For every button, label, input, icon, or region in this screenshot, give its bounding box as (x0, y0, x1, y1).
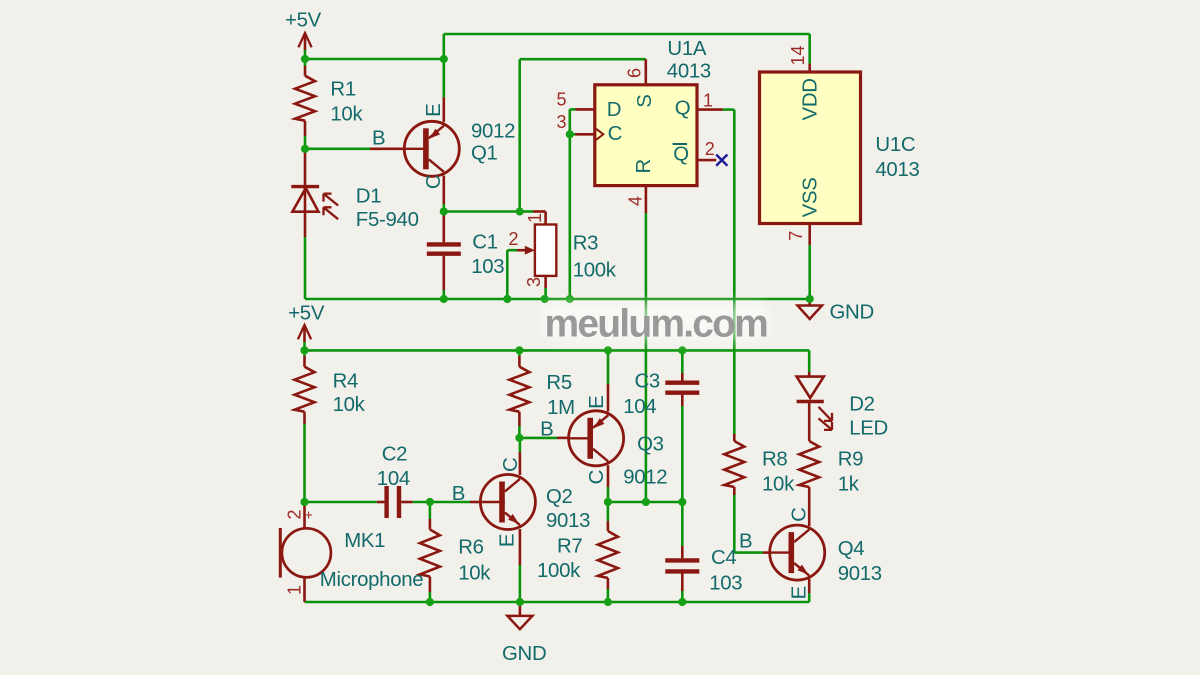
svg-text:R9: R9 (838, 448, 863, 470)
svg-text:Q4: Q4 (838, 538, 865, 560)
svg-text:D2: D2 (849, 393, 874, 415)
svg-text:4013: 4013 (667, 60, 711, 82)
svg-text:D: D (607, 99, 621, 121)
svg-text:100k: 100k (573, 260, 617, 282)
svg-text:14: 14 (788, 45, 808, 65)
svg-text:MK1: MK1 (344, 530, 385, 552)
svg-text:1k: 1k (838, 474, 860, 496)
svg-text:VDD: VDD (799, 78, 821, 120)
svg-text:2: 2 (705, 139, 715, 159)
svg-text:3: 3 (556, 112, 566, 132)
svg-text:E: E (789, 586, 811, 599)
svg-text:103: 103 (471, 256, 504, 278)
svg-text:3: 3 (524, 277, 544, 287)
svg-text:10k: 10k (333, 394, 366, 416)
svg-text:10k: 10k (458, 563, 491, 585)
svg-text:R7: R7 (557, 536, 582, 558)
svg-text:R: R (633, 159, 655, 173)
svg-text:C: C (500, 458, 522, 472)
svg-text:Q: Q (675, 97, 691, 119)
svg-text:10k: 10k (762, 474, 795, 496)
svg-text:Q3: Q3 (637, 434, 664, 456)
svg-text:B: B (739, 531, 752, 553)
svg-text:10k: 10k (330, 104, 363, 126)
svg-text:1M: 1M (547, 397, 575, 419)
svg-text:9013: 9013 (838, 563, 882, 585)
svg-text:C: C (608, 123, 622, 145)
svg-text:C: C (586, 470, 608, 484)
svg-text:1: 1 (284, 585, 304, 595)
svg-text:E: E (586, 396, 608, 409)
svg-text:C1: C1 (472, 231, 497, 253)
svg-text:2: 2 (509, 229, 519, 249)
svg-text:R6: R6 (458, 537, 483, 559)
svg-text:100k: 100k (537, 560, 581, 582)
svg-text:LED: LED (849, 418, 888, 440)
svg-text:GND: GND (502, 643, 546, 665)
svg-text:Q2: Q2 (546, 486, 573, 508)
svg-text:4: 4 (626, 196, 646, 206)
svg-text:E: E (423, 104, 445, 117)
svg-text:C2: C2 (382, 444, 407, 466)
svg-text:Q1: Q1 (471, 143, 498, 165)
svg-text:S: S (634, 94, 656, 107)
svg-text:C3: C3 (635, 371, 660, 393)
svg-text:Q: Q (673, 143, 689, 165)
svg-text:meulum.com: meulum.com (545, 303, 768, 346)
svg-text:9012: 9012 (471, 121, 515, 143)
svg-text:4013: 4013 (875, 159, 919, 181)
svg-text:9013: 9013 (546, 510, 590, 532)
svg-text:103: 103 (709, 572, 742, 594)
svg-text:+: + (305, 507, 313, 523)
svg-text:GND: GND (830, 301, 874, 323)
svg-text:B: B (540, 419, 553, 441)
svg-text:C: C (789, 507, 811, 521)
svg-text:R5: R5 (546, 372, 571, 394)
svg-text:U1A: U1A (667, 38, 706, 60)
svg-text:+5V: +5V (288, 302, 325, 324)
svg-text:D1: D1 (356, 186, 381, 208)
svg-text:F5-940: F5-940 (356, 209, 419, 231)
svg-text:R8: R8 (762, 448, 787, 470)
svg-text:5: 5 (556, 90, 566, 110)
svg-text:Microphone: Microphone (320, 569, 424, 591)
svg-text:2: 2 (284, 509, 304, 519)
svg-text:1: 1 (703, 90, 713, 110)
svg-text:7: 7 (786, 231, 806, 241)
svg-text:U1C: U1C (875, 134, 915, 156)
svg-text:E: E (497, 534, 519, 547)
svg-text:C4: C4 (711, 547, 736, 569)
svg-text:+5V: +5V (285, 10, 322, 32)
svg-text:9012: 9012 (623, 466, 667, 488)
svg-text:R1: R1 (330, 79, 355, 101)
svg-text:6: 6 (625, 68, 645, 78)
svg-text:B: B (372, 128, 385, 150)
svg-text:R4: R4 (333, 371, 358, 393)
svg-text:R3: R3 (573, 233, 598, 255)
svg-text:104: 104 (377, 468, 410, 490)
svg-text:104: 104 (623, 396, 656, 418)
svg-text:VSS: VSS (799, 177, 821, 217)
svg-text:C: C (423, 175, 445, 189)
svg-text:B: B (452, 483, 465, 505)
svg-text:1: 1 (525, 213, 545, 223)
